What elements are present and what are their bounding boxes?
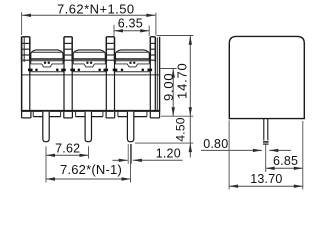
foot under wall 4 <box>150 112 159 118</box>
side view pin <box>263 119 269 145</box>
svg-text:6.85: 6.85 <box>273 154 298 168</box>
barrier wall 2 <box>64 37 72 111</box>
dimension 4.50 vertical <box>135 116 193 157</box>
screw slot cell 2 <box>86 62 92 64</box>
foot under wall 2 <box>64 112 73 118</box>
bottom skirt cell 1 <box>33 112 60 117</box>
dimension 6.85 <box>266 145 303 173</box>
dimension 0.80 side pin width <box>201 137 291 152</box>
side view body <box>229 36 304 118</box>
front view body outline <box>22 37 160 112</box>
bottom skirt cell 2 <box>76 112 103 117</box>
screw slot cell 1 <box>44 62 50 64</box>
screw slot cell 3 <box>130 62 136 64</box>
svg-text:14.70: 14.70 <box>175 62 190 99</box>
pin 3 front view <box>127 112 133 142</box>
clamp plate cell 1 <box>28 64 66 72</box>
dimension 9.00 vertical <box>160 69 193 117</box>
dimension 7.62*N+1.50 top <box>22 2 156 36</box>
svg-text:7.62: 7.62 <box>55 142 80 156</box>
svg-text:6.35: 6.35 <box>118 16 143 30</box>
dimension 7.62*(N-1) <box>46 144 131 183</box>
barrier wall 4 <box>150 37 157 111</box>
barrier wall 1 <box>22 37 30 111</box>
terminal cover dome cell 3 <box>115 50 150 64</box>
svg-text:1.20: 1.20 <box>156 147 181 161</box>
dimension 14.70 vertical <box>157 36 194 117</box>
barrier wall 3 <box>106 37 114 111</box>
svg-text:4.50: 4.50 <box>173 117 187 141</box>
bottom skirt cell 3 <box>118 112 147 117</box>
dimension 6.35 <box>114 16 149 36</box>
terminal cover dome cell 1 <box>30 50 63 64</box>
pin 2 front view <box>85 112 91 142</box>
terminal cover dome cell 2 <box>73 50 106 64</box>
svg-text:7.62*N+1.50: 7.62*N+1.50 <box>57 2 135 17</box>
dimension 1.20 pin width <box>112 144 182 164</box>
foot under wall 3 <box>106 112 115 118</box>
dimension 13.70 <box>229 120 303 189</box>
dimension 7.62 pin pitch <box>46 142 89 183</box>
svg-text:0.80: 0.80 <box>203 137 228 151</box>
svg-text:7.62*(N-1): 7.62*(N-1) <box>60 162 122 177</box>
clamp plate cell 3 <box>113 64 152 72</box>
svg-text:13.70: 13.70 <box>250 172 282 186</box>
pin 1 front view <box>43 112 49 142</box>
foot under wall 1 <box>22 112 31 118</box>
clamp plate cell 2 <box>70 64 108 72</box>
